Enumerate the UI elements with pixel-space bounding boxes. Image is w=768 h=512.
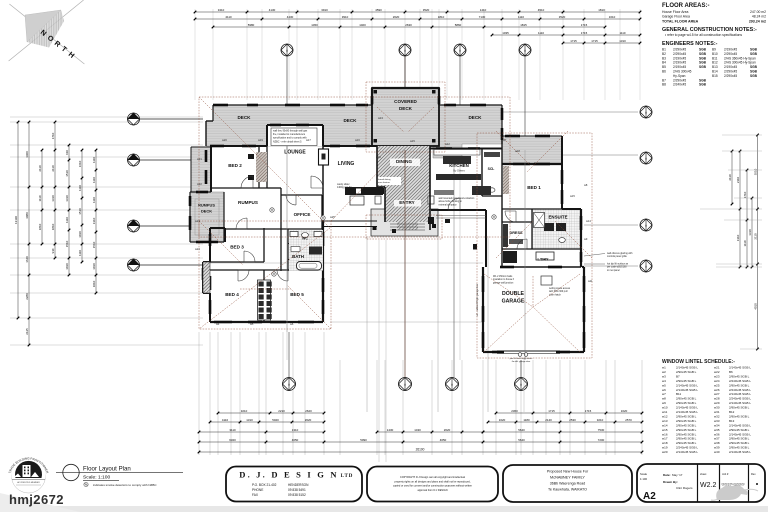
svg-text:w13: w13 [378,116,383,120]
section symbol + plan title [56,464,183,487]
svg-text:ACCREDITED MEMBER: ACCREDITED MEMBER [17,481,40,484]
svg-text:B4: B4 [662,61,666,65]
fireplace living [319,149,329,165]
entry steps [390,223,425,225]
svg-text:fire, installed to manufacture: fire, installed to manufacturers [273,133,306,136]
svg-text:910: 910 [51,248,55,253]
text block general construction notes [662,27,757,37]
dimension row bottom 2 [210,421,324,423]
witness lines left [10,117,203,345]
svg-text:indicates smoke detectors to c: indicates smoke detectors to comply with… [93,483,157,487]
svg-text:2/140x45 SGB L: 2/140x45 SGB L [676,410,698,414]
svg-text:2/140x45 SGB L: 2/140x45 SGB L [729,366,751,370]
svg-text:w1: w1 [662,366,666,370]
svg-text:3080: 3080 [25,212,29,219]
svg-text:W1.2 150mm batts: W1.2 150mm batts [493,275,513,278]
svg-text:2/90x45 SGB L: 2/90x45 SGB L [729,374,750,378]
svg-text:2/90x45 SGB L: 2/90x45 SGB L [676,432,697,436]
svg-text:TOTAL FLOOR AREA: TOTAL FLOOR AREA [662,20,699,24]
svg-text:2/240x45 SGB L: 2/240x45 SGB L [676,446,698,450]
svg-text:DRESS: DRESS [509,231,523,235]
svg-text:BED 5: BED 5 [290,292,304,297]
svg-text:w11: w11 [662,410,668,414]
svg-text:w20: w20 [662,450,668,454]
svg-text:SCL: SCL [488,167,495,171]
svg-text:Scale: Scale [640,472,647,476]
grid datum markers bottom [283,378,296,391]
svg-text:6m dbl. garage door: 6m dbl. garage door [512,360,531,363]
svg-text:2/HS 300x45: 2/HS 300x45 [673,70,692,74]
svg-text:4430: 4430 [287,15,294,19]
svg-text:OFFICE: OFFICE [294,212,311,217]
svg-text:ceiling space access: ceiling space access [549,288,571,290]
svg-text:1715: 1715 [581,23,588,27]
covered deck hatch [372,88,439,146]
svg-text:2360: 2360 [511,409,518,413]
svg-text:w17: w17 [662,437,668,441]
grid datum markers right [640,106,652,118]
svg-text:1715: 1715 [581,31,588,35]
svg-text:2/190x45: 2/190x45 [673,61,686,65]
svg-text:w25: w25 [714,383,720,387]
svg-text:w20: w20 [222,138,227,142]
svg-text:1430: 1430 [414,428,421,432]
svg-text:4590: 4590 [375,8,382,12]
svg-text:1310: 1310 [92,217,96,224]
svg-text:2017-1020: 2017-1020 [722,482,744,487]
svg-text:w23: w23 [714,374,720,378]
svg-text:2/140x45 SGB L: 2/140x45 SGB L [676,450,698,454]
svg-text:2530: 2530 [569,418,576,422]
svg-text:2/90x45 SGB L: 2/90x45 SGB L [729,428,750,432]
svg-text:1310: 1310 [292,428,299,432]
fridge/pantry [472,186,491,195]
svg-text:A: A [286,48,288,52]
svg-text:BATH: BATH [292,254,304,259]
svg-text:formal dining: formal dining [378,178,391,181]
svg-text:down hatch: down hatch [549,293,561,296]
svg-text:ENSUITE: ENSUITE [548,215,567,220]
svg-text:w7: w7 [503,138,507,142]
svg-text:1035: 1035 [502,31,509,35]
svg-text:A: A [524,48,526,52]
svg-text:2/190x45: 2/190x45 [724,65,737,69]
svg-text:2140: 2140 [545,418,552,422]
svg-text:• refer to page w4.5 for all: • refer to page w4.5 for all constructio… [665,33,742,37]
svg-text:2/90x45 SGB L: 2/90x45 SGB L [676,370,697,374]
svg-text:w26: w26 [714,388,720,392]
hatched pier west [203,262,210,293]
dimension column left 3 [41,150,43,244]
svg-text:Scale: 1:100: Scale: 1:100 [83,475,110,481]
svg-text:w4: w4 [662,379,666,383]
svg-text:3400: 3400 [25,151,29,158]
svg-text:House Floor Area: House Floor Area [662,10,688,14]
svg-text:w24: w24 [714,379,720,383]
svg-text:above hobs, venting to: above hobs, venting to [439,200,463,203]
svg-text:A: A [459,48,461,52]
svg-text:ENGINEERS NOTES:-: ENGINEERS NOTES:- [662,41,718,47]
svg-text:BED 1: BED 1 [527,185,541,190]
media unit living [345,187,383,195]
svg-text:2/HS 300x45 Hy-Span: 2/HS 300x45 Hy-Span [724,61,756,65]
svg-text:w34: w34 [714,423,720,427]
section markers left [128,113,140,125]
svg-text:insulation to house if: insulation to house if [493,278,514,281]
svg-text:DOUBLE: DOUBLE [502,291,524,297]
svg-text:26100: 26100 [416,448,425,452]
svg-text:w26: w26 [376,155,381,159]
walls central/dining/entry [323,146,430,230]
svg-text:w30: w30 [433,208,438,212]
svg-text:1400: 1400 [359,23,366,27]
svg-text:3210: 3210 [241,409,248,413]
svg-text:2210: 2210 [278,409,285,413]
svg-text:7130: 7130 [479,15,486,19]
svg-text:1110: 1110 [38,195,42,201]
svg-text:1110: 1110 [518,15,524,19]
svg-text:B13: B13 [712,65,718,69]
svg-text:w37: w37 [714,437,720,441]
svg-text:1620: 1620 [499,418,506,422]
svg-text:2/90x45 SGB L: 2/90x45 SGB L [729,406,750,410]
svg-text:2/240x45 SGB L: 2/240x45 SGB L [729,379,751,383]
svg-text:1:100: 1:100 [640,477,647,481]
svg-text:1110: 1110 [78,185,82,191]
svg-text:1010: 1010 [78,231,82,238]
svg-text:B12: B12 [712,61,718,65]
svg-text:1110: 1110 [92,157,96,163]
svg-text:A: A [288,382,290,386]
svg-text:2620: 2620 [305,418,312,422]
svg-text:1430: 1430 [387,428,394,432]
svg-text:w15: w15 [410,139,415,143]
svg-text:May '17: May '17 [672,473,683,477]
svg-text:1310: 1310 [619,39,626,43]
deck strip top [206,88,502,158]
title box proposed [503,465,632,502]
svg-text:w7: w7 [662,392,666,396]
svg-text:B6: B6 [662,70,666,74]
bath fixtures [290,232,298,237]
kitchen bench [434,150,480,156]
svg-text:2/240x45: 2/240x45 [673,83,686,87]
svg-text:48.24 m2: 48.24 m2 [752,15,766,19]
svg-text:w25: w25 [330,215,335,219]
title box sheet [637,464,765,502]
svg-text:w14: w14 [662,423,668,427]
svg-text:1110: 1110 [92,197,96,203]
svg-text:approval from D.J DESIGN: approval from D.J DESIGN [417,489,447,492]
svg-text:w3: w3 [662,374,666,378]
svg-text:2/90x45 SGB L: 2/90x45 SGB L [729,437,750,441]
robe bed2 [256,152,267,182]
svg-text:1410: 1410 [480,8,487,12]
svg-text:4650: 4650 [292,438,299,442]
svg-text:2110: 2110 [753,233,757,240]
svg-text:w10: w10 [662,406,668,410]
svg-text:2/290x45: 2/290x45 [673,78,686,82]
svg-text:Floor Layout Plan: Floor Layout Plan [83,466,131,473]
svg-text:w24: w24 [195,247,200,251]
svg-text:wall mounted rangehood extract: wall mounted rangehood extraction [439,197,475,200]
svg-text:7200: 7200 [598,438,605,442]
smoke detectors [270,208,274,212]
svg-text:1010: 1010 [65,263,69,270]
svg-text:5860: 5860 [455,23,462,27]
svg-text:McNABNEY FAMILY: McNABNEY FAMILY [550,476,585,480]
svg-text:By Others: By Others [453,169,465,173]
ldry bench [503,251,517,263]
svg-text:2/190x45: 2/190x45 [673,65,686,69]
svg-text:property rights on all designs: property rights on all designs and plans… [395,480,471,483]
svg-text:6320: 6320 [229,438,236,442]
svg-text:w18: w18 [515,149,520,153]
svg-text:B3: B3 [662,56,666,60]
svg-text:L'DRY: L'DRY [537,258,549,262]
svg-text:P.O. BOX 21-402: P.O. BOX 21-402 [252,483,277,487]
svg-text:with 600x 600 pull: with 600x 600 pull [549,290,568,293]
svg-text:w21: w21 [714,366,720,370]
svg-text:1010: 1010 [92,280,96,287]
svg-text:1710: 1710 [743,191,747,198]
svg-text:1310: 1310 [65,195,69,202]
svg-text:247.00 m2: 247.00 m2 [750,10,766,14]
deck band right wing [502,136,562,164]
svg-text:COPYRIGHT: D.J Design own all: COPYRIGHT: D.J Design own all copyright … [400,476,465,479]
svg-text:2/90x45 SGB L: 2/90x45 SGB L [676,379,697,383]
svg-text:BED 3: BED 3 [230,245,244,250]
svg-text:1620: 1620 [621,409,628,413]
svg-text:09 838 5152: 09 838 5152 [288,493,306,497]
svg-text:1715: 1715 [585,409,592,413]
svg-text:2/140x45 SGB L: 2/140x45 SGB L [676,366,698,370]
svg-text:2/290x45: 2/290x45 [724,74,737,78]
svg-text:DECK: DECK [343,118,357,123]
svg-text:SGB: SGB [699,78,707,82]
svg-text:wall obscure glazing with: wall obscure glazing with [607,252,633,255]
svg-text:1110: 1110 [538,31,544,35]
svg-text:SGB: SGB [699,48,707,52]
svg-text:wall thru 90x90 through wall g: wall thru 90x90 through wall gas [273,130,308,133]
svg-text:COVERED: COVERED [394,99,417,104]
svg-text:1815: 1815 [520,23,527,27]
svg-text:3910: 3910 [342,15,349,19]
grid lines vertical through plan [287,56,525,462]
svg-text:w30: w30 [714,406,720,410]
svg-text:3510: 3510 [753,168,757,175]
svg-text:1810: 1810 [598,8,605,12]
svg-text:SGB: SGB [699,56,707,60]
svg-text:2/140x45 SGB L: 2/140x45 SGB L [729,423,751,427]
dimension column left 5 [68,145,70,275]
logo trade building practitioner [8,456,50,493]
text block engineers notes [662,41,758,87]
svg-text:B7: B7 [662,78,666,82]
svg-text:B14: B14 [712,70,718,74]
svg-text:Rev: Rev [751,472,756,476]
svg-text:2620: 2620 [393,15,400,19]
svg-text:7530: 7530 [598,428,605,432]
svg-text:RUMPUS: RUMPUS [198,203,215,208]
door arcs [236,176,527,281]
svg-text:1810: 1810 [438,15,445,19]
svg-text:w5: w5 [662,383,666,387]
svg-text:2/240x45 SGB L: 2/240x45 SGB L [729,397,751,401]
svg-text:w11: w11 [588,279,593,283]
svg-text:5640: 5640 [518,428,525,432]
svg-text:3910: 3910 [321,8,328,12]
svg-text:3520: 3520 [423,8,430,12]
svg-text:2/90x45 SGB L: 2/90x45 SGB L [676,428,697,432]
svg-text:2/90x45 SGB L: 2/90x45 SGB L [729,414,750,418]
svg-text:FLOOR AREAS:-: FLOOR AREAS:- [662,3,709,9]
svg-text:4110: 4110 [225,15,232,19]
svg-text:Te Kauwhata, WAIKATO: Te Kauwhata, WAIKATO [548,488,587,492]
svg-text:2/90x45 SGB L: 2/90x45 SGB L [729,441,750,445]
dimension column left 2 [28,122,30,345]
svg-text:w2 - outlined lift gb. garage: w2 - outlined lift gb. garage door [476,283,479,316]
svg-text:D. J. D E S I G N: D. J. D E S I G N [239,470,339,480]
wall chunks (window rhythm) [190,96,584,352]
svg-text:1450: 1450 [311,23,318,27]
svg-text:W2.2: W2.2 [700,482,716,489]
svg-text:1180: 1180 [523,418,530,422]
svg-text:LTD: LTD [341,474,354,479]
svg-text:09 838 5491: 09 838 5491 [288,488,306,492]
svg-text:B11: B11 [712,56,718,60]
svg-text:2/HS 360x45 Hy-Span: 2/HS 360x45 Hy-Span [724,56,756,60]
svg-text:2/90x45 SGB L: 2/90x45 SGB L [676,397,697,401]
svg-text:w13: w13 [662,419,668,423]
svg-text:1010: 1010 [92,263,96,270]
svg-text:B15: B15 [712,74,718,78]
svg-text:36Bb Waerenga Road: 36Bb Waerenga Road [550,482,585,486]
svg-text:2/290x45: 2/290x45 [673,52,686,56]
svg-text:A: A [404,382,406,386]
svg-text:area feature: area feature [378,181,391,184]
svg-text:BED 4: BED 4 [225,292,239,297]
svg-text:A2: A2 [643,491,656,502]
svg-text:Job #: Job # [722,472,729,476]
svg-text:SGB: SGB [750,52,758,56]
svg-text:B10: B10 [712,52,718,56]
svg-text:1110: 1110 [619,31,625,35]
svg-text:w18: w18 [662,441,668,445]
svg-text:B12: B12 [729,410,735,414]
svg-text:2/190x45: 2/190x45 [724,48,737,52]
svg-text:B2: B2 [662,52,666,56]
rumpus deck [191,147,211,192]
svg-text:5020: 5020 [272,418,279,422]
svg-text:1610: 1610 [609,15,616,19]
svg-text:2/90x45 SGB L: 2/90x45 SGB L [676,401,697,405]
grid datum markers top [281,44,293,56]
svg-text:A: A [645,110,647,114]
svg-text:w12: w12 [662,414,668,418]
svg-text:Hy-Span: Hy-Span [673,74,686,78]
svg-text:DINING: DINING [396,159,413,164]
svg-text:13130: 13130 [14,216,18,224]
svg-text:w19: w19 [662,446,668,450]
svg-text:2/140x45 SGB L: 2/140x45 SGB L [676,388,698,392]
svg-text:2/90x45 SGB L: 2/90x45 SGB L [676,437,697,441]
svg-text:2280: 2280 [25,293,29,300]
svg-text:1110: 1110 [65,217,69,223]
svg-text:3110: 3110 [229,428,236,432]
dimension row bottom 5 [199,451,642,453]
svg-text:w40: w40 [714,450,720,454]
svg-text:PHONE: PHONE [252,488,263,492]
svg-text:1610: 1610 [78,160,82,167]
svg-text:w12: w12 [445,142,450,146]
svg-text:B9: B9 [712,48,716,52]
ensuite vanity [544,223,554,231]
svg-text:4130: 4130 [269,8,276,12]
svg-text:HENDERSON: HENDERSON [288,483,309,487]
svg-text:1510: 1510 [65,170,69,177]
svg-text:hot dip lift surface as: hot dip lift surface as [607,263,629,266]
north compass [9,0,85,64]
svg-text:B8: B8 [662,83,666,87]
svg-text:w2: w2 [662,370,666,374]
svg-text:2620: 2620 [444,428,451,432]
svg-text:A: A [645,156,647,160]
robes between bed4 bed5 [258,280,271,320]
witness lines right [203,112,638,322]
svg-text:w35: w35 [714,428,720,432]
svg-text:KITCHEN: KITCHEN [449,163,469,168]
ensuite tiled floor [532,209,581,249]
text block window lintel schedule [662,359,751,454]
svg-text:2/290x45: 2/290x45 [673,48,686,52]
svg-text:B1: B1 [662,48,666,52]
entry porch platform [371,209,438,236]
svg-text:1510: 1510 [78,208,82,215]
svg-text:2/90x45 SGB L: 2/90x45 SGB L [676,419,697,423]
svg-text:B7: B7 [676,374,680,378]
svg-text:w33: w33 [714,419,720,423]
svg-text:w23: w23 [195,219,200,223]
svg-text:B6: B6 [729,370,733,374]
svg-text:A: A [645,264,647,268]
svg-text:2/290x45: 2/290x45 [724,52,737,56]
svg-text:SGB: SGB [699,61,707,65]
svg-text:Date:: Date: [663,473,671,477]
svg-text:2110: 2110 [728,174,732,181]
svg-text:A: A [451,382,453,386]
svg-text:WINDOW LINTEL SCHEDULE:-: WINDOW LINTEL SCHEDULE:- [662,359,735,365]
svg-text:w27: w27 [714,392,720,396]
svg-text:1310: 1310 [51,195,55,202]
interior walls left wing [210,146,324,322]
svg-text:2/140x45 SGB L: 2/140x45 SGB L [676,383,698,387]
svg-text:1715: 1715 [548,409,555,413]
bed1 robe [503,166,509,194]
svg-text:2/90x45 SGB L: 2/90x45 SGB L [676,423,697,427]
svg-text:3410: 3410 [218,8,225,12]
walls kitchen wing [428,136,581,267]
bath tiles [289,230,323,271]
svg-text:w38: w38 [714,441,720,445]
svg-text:293.24 m2: 293.24 m2 [749,20,766,24]
svg-text:1310: 1310 [246,418,253,422]
svg-text:Drawn By:: Drawn By: [663,480,678,484]
dimension column left 7 [95,150,97,293]
svg-text:copied or used for consent and: copied or used for consent and/or constr… [393,485,473,488]
witness lines top [195,9,640,100]
dining hatched floor [377,146,430,187]
